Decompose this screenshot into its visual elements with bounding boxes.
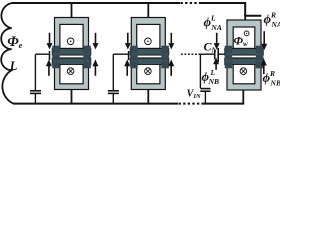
svg-text:CN: CN [204, 40, 218, 55]
junction box B1 outer [55, 58, 89, 90]
junction box B2 outer [131, 58, 165, 90]
wire input capacitor to bottom rail [204, 91, 206, 103]
current arrow down left of cell2 [127, 33, 129, 44]
junction symbol circled dot A1 [67, 38, 74, 45]
junction box AN outer [227, 20, 261, 49]
junction box B1 inner [60, 62, 83, 84]
current arrow up right of cell2 [170, 66, 172, 76]
junction box BN outer [227, 58, 261, 90]
current arrow down right of cellN [263, 31, 265, 44]
wire down from cellN node [199, 54, 201, 88]
coupling capacitor CN plate 2 [217, 48, 219, 62]
svg-text:ϕLNB: ϕLNB [202, 68, 220, 86]
input capacitor top plate [200, 88, 210, 90]
junction box A1 outer [55, 18, 89, 50]
coupling capacitor plate cell1 [49, 51, 51, 60]
top rail dashed continuation [181, 2, 201, 4]
bottom rail [13, 103, 178, 105]
junction box A2 outer [131, 18, 165, 50]
current arrow down right of cell2 [170, 33, 172, 44]
junction symbol circled cross BN [240, 68, 247, 75]
wire cell1 bottom stub [71, 90, 73, 104]
cell2 middle electrodes [130, 46, 169, 69]
current arrow up right of cellN [263, 65, 265, 74]
wire cell1 top stub [71, 3, 73, 18]
current arrow up right of cell1 [94, 66, 96, 76]
junction symbol circled dot A2 [145, 38, 152, 45]
input capacitor bottom plate [200, 90, 210, 92]
junction box AN inner [233, 27, 255, 48]
bottom rail dashed continuation [179, 103, 204, 105]
wire CN plate2 to cellN [218, 53, 225, 55]
node wire cellN [200, 53, 214, 55]
wire ground capacitor to bottom rail [34, 93, 36, 103]
wire cellN top stub [244, 14, 246, 21]
small circled dot inside cellN [244, 31, 249, 36]
current arrow up left of cell2 [126, 66, 128, 76]
inductor L coil on left edge [1, 3, 13, 104]
wire down from cell1 node [34, 54, 36, 90]
top rail [12, 2, 180, 4]
junction box A1 inner [60, 24, 83, 48]
coupling capacitor CN plate 1 [214, 51, 216, 60]
junction box B2 inner [137, 62, 160, 84]
svg-text:VIN: VIN [187, 88, 202, 100]
svg-text:L: L [9, 59, 18, 73]
current arrow down left of cell1 [49, 33, 51, 44]
svg-text:ϕRNA: ϕRNA [264, 11, 281, 30]
junction symbol circled cross B2 [145, 68, 152, 75]
wire ground capacitor to bottom rail [112, 93, 114, 103]
cell1 middle electrodes [52, 46, 91, 69]
wire down from cell2 node [112, 54, 114, 90]
ground capacitor cell2 [108, 90, 119, 92]
svg-text:ϕRNB: ϕRNB [263, 69, 281, 88]
dashed node wire continuation [181, 53, 201, 55]
coupling capacitor plate cell2 [128, 51, 130, 60]
wire cell2 top stub [147, 3, 149, 18]
svg-text:ϕLNA: ϕLNA [204, 14, 222, 33]
current arrow down right of cell1 [95, 33, 97, 44]
top rail right section [200, 3, 261, 16]
wire cell2 bottom stub [147, 90, 149, 104]
svg-text:Φe: Φe [7, 34, 22, 50]
cellN middle electrodes [225, 46, 264, 69]
junction symbol circled cross B1 [67, 68, 74, 75]
current arrow up left of cell1 [48, 66, 50, 76]
junction box BN inner [233, 62, 255, 84]
bottom rail right section [203, 103, 244, 105]
current arrow up left of cellN [215, 64, 217, 70]
coupling wire to cell1 node [35, 53, 48, 55]
ground capacitor cell1 [30, 90, 41, 92]
wire cellN bottom stub [242, 90, 244, 104]
coupling wire to cell2 node [113, 53, 128, 55]
junction box A2 inner [137, 24, 160, 48]
current arrow down left of cellN [216, 33, 218, 44]
